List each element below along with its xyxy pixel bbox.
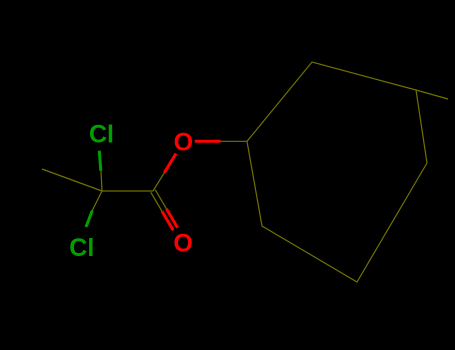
red bond halves <box>164 154 176 173</box>
svg-text:O: O <box>174 129 193 157</box>
svg-text:Cl: Cl <box>89 121 114 149</box>
svg-text:O: O <box>173 230 192 258</box>
wire C1 to ester O (olive half) <box>153 173 164 191</box>
svg-text:Cl: Cl <box>69 234 94 262</box>
C=O double bond olive halves <box>151 192 162 211</box>
wire C2 to Cl top (olive half) <box>101 171 102 191</box>
wire C2-C1 <box>102 190 153 192</box>
wire ester O to ring V1 (olive half) <box>221 140 248 142</box>
wire C2 to Cl bottom (olive half) <box>92 191 102 211</box>
methyl stub CH3 on C2 <box>42 169 102 191</box>
green bond halves to Cl <box>99 151 101 171</box>
ring cyclohexane <box>247 62 427 282</box>
methyl stub on ring <box>416 90 448 99</box>
